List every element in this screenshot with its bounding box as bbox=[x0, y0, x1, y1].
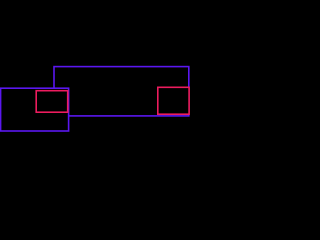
big blue rectangle B1 bbox=[54, 67, 189, 116]
left blue rectangle B2 bbox=[1, 88, 69, 131]
right red rectangle R2 bbox=[158, 87, 189, 114]
left red rectangle R1 bbox=[36, 91, 67, 113]
